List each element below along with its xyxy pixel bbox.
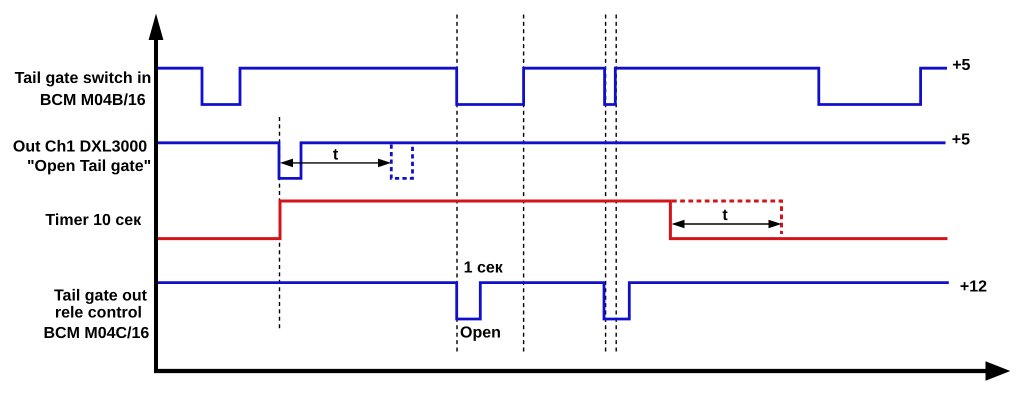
svg-text:"Open Tail gate": "Open Tail gate": [27, 158, 151, 175]
arrow t (timer): [682, 223, 771, 225]
svg-text:t: t: [333, 146, 339, 163]
svg-text:+5: +5: [952, 57, 970, 74]
wire: signal 1 "Tail gate switch in BCM M04B/16" waveform: [154, 68, 947, 104]
svg-text:Tail gate switch in: Tail gate switch in: [15, 70, 152, 87]
svg-text:BCM M04C/16: BCM M04C/16: [43, 325, 149, 342]
svg-text:+5: +5: [952, 132, 970, 149]
dashed guide line at x=616.2: [615, 15, 617, 354]
arrow t (signal 2): [291, 162, 380, 164]
svg-text:BCM M04B/16: BCM M04B/16: [40, 92, 146, 109]
dashed guide line at x=279.5: [279, 117, 281, 330]
svg-text:Open: Open: [460, 324, 501, 341]
dashed guide line at x=457: [456, 15, 458, 354]
dashed guide line at x=523.6: [523, 15, 525, 354]
wire: signal 2 "Out Ch1 DXL3000" waveform: [154, 143, 946, 179]
wire: signal 3 "Timer 10 сек" waveform (red): [154, 201, 948, 239]
svg-text:+12: +12: [960, 279, 987, 296]
svg-text:t: t: [722, 207, 728, 224]
wire: dashed blue pulse on signal 2: [391, 145, 412, 179]
svg-text:1 сек: 1 сек: [464, 260, 504, 277]
svg-text:rele control: rele control: [55, 304, 142, 321]
svg-text:Timer 10 сек: Timer 10 сек: [45, 212, 142, 229]
svg-text:Tail gate out: Tail gate out: [54, 287, 148, 304]
dashed guide line at x=605.6: [605, 15, 607, 354]
horizontal axis: [154, 369, 986, 373]
vertical axis: [154, 38, 158, 373]
wire: signal 4 "Tail gate out rele control" waveform: [154, 283, 949, 319]
wire: dashed red pulse continuation: [672, 201, 782, 234]
svg-text:Out Ch1 DXL3000: Out Ch1 DXL3000: [13, 139, 147, 156]
